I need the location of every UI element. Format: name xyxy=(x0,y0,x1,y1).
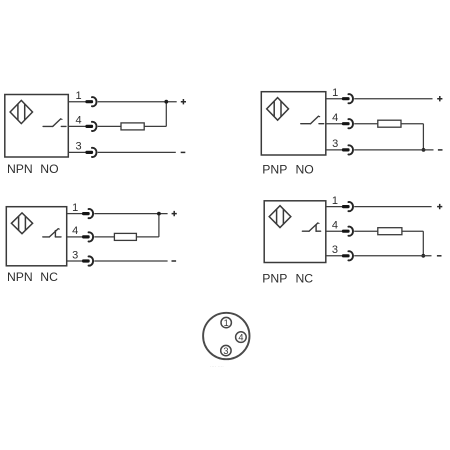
+ supply terminal xyxy=(181,99,186,104)
svg-text:4: 4 xyxy=(72,225,78,237)
sensor body box PNP-NO xyxy=(261,92,326,155)
wire pin 4 to load NPN-NO xyxy=(98,125,121,127)
svg-text:NC: NC xyxy=(40,270,58,284)
load resistor RL PNP-NC xyxy=(378,228,402,235)
+ supply terminal xyxy=(172,211,177,216)
connector plug pin 1 xyxy=(342,94,353,103)
wire pin 4 lead PNP-NO xyxy=(326,123,343,125)
wire pin 3 to - PNP-NC xyxy=(354,255,431,257)
wire pin 4 to load PNP-NO xyxy=(354,123,378,125)
wire pin 3 lead PNP-NC xyxy=(326,255,343,257)
connector pin 1 circle xyxy=(221,317,231,328)
junction NPN-NC xyxy=(157,212,161,216)
wire load to corner PNP-NC xyxy=(402,230,423,232)
wire vertical link PNP-NC xyxy=(422,231,424,256)
svg-text:4: 4 xyxy=(76,115,82,127)
wire pin 1 to + PNP-NO xyxy=(354,98,432,100)
svg-text:1: 1 xyxy=(332,87,338,99)
svg-text:.... ....: .... .... xyxy=(210,363,224,369)
connector plug pin 4 xyxy=(85,122,96,131)
switch contact (NO) NPN-NO xyxy=(43,119,66,127)
- supply terminal xyxy=(172,260,177,262)
switch contact (NC) PNP-NC xyxy=(302,223,320,231)
sensor symbol (diamond with lens) NPN-NO xyxy=(10,100,32,123)
wire load to corner NPN-NO xyxy=(144,125,166,127)
- supply terminal xyxy=(437,255,442,257)
svg-text:3: 3 xyxy=(72,249,78,261)
wire load to corner PNP-NO xyxy=(401,123,423,125)
connector plug pin 1 xyxy=(85,97,96,106)
switch contact (NO) PNP-NO xyxy=(301,116,324,124)
connector plug pin 1 xyxy=(82,209,93,218)
+ supply terminal xyxy=(437,204,442,209)
svg-text:NO: NO xyxy=(40,162,58,176)
svg-text:4: 4 xyxy=(238,332,243,342)
svg-text:NPN: NPN xyxy=(7,270,33,284)
svg-text:3: 3 xyxy=(332,138,338,150)
junction PNP-NC xyxy=(421,254,425,258)
svg-text:4: 4 xyxy=(332,112,338,124)
wire pin 3 lead NPN-NO xyxy=(68,151,86,153)
load resistor RL NPN-NO xyxy=(121,123,144,130)
wire pin 1 lead NPN-NC xyxy=(67,213,83,215)
svg-text:4: 4 xyxy=(332,220,338,232)
wire pin 4 lead PNP-NC xyxy=(326,230,343,232)
svg-text:3: 3 xyxy=(332,244,338,256)
wire pin 4 to load NPN-NC xyxy=(94,236,114,238)
connector housing circle xyxy=(203,313,249,359)
svg-text:PNP: PNP xyxy=(262,272,287,286)
connector plug pin 4 xyxy=(342,119,353,128)
svg-text:NC: NC xyxy=(296,272,314,286)
svg-text:3: 3 xyxy=(223,346,228,356)
connector plug pin 3 xyxy=(342,145,353,154)
wire pin 3 to - NPN-NO xyxy=(98,151,176,153)
svg-text:1: 1 xyxy=(72,202,78,214)
junction NPN-NO xyxy=(164,100,168,104)
connector plug pin 4 xyxy=(342,227,353,236)
wire vertical link NPN-NO xyxy=(165,102,167,127)
svg-text:1: 1 xyxy=(76,90,82,102)
wire pin 1 to + PNP-NC xyxy=(354,206,431,208)
sensor body box NPN-NO xyxy=(5,95,69,158)
wire pin 3 to - NPN-NC xyxy=(94,260,167,262)
wire pin 3 to - PNP-NO xyxy=(354,149,433,151)
load resistor RL NPN-NC xyxy=(114,233,136,240)
wire pin 4 lead NPN-NO xyxy=(68,125,86,127)
- supply terminal xyxy=(438,149,443,151)
sensor symbol (diamond with lens) PNP-NC xyxy=(269,206,291,228)
sensor symbol (diamond with lens) PNP-NO xyxy=(267,98,289,121)
load resistor RL PNP-NO xyxy=(378,120,401,127)
sensor body box PNP-NC xyxy=(264,201,326,263)
connector pin 3 circle xyxy=(221,345,231,356)
connector plug pin 3 xyxy=(85,148,96,157)
connector plug pin 3 xyxy=(82,256,93,265)
svg-text:PNP: PNP xyxy=(262,162,287,176)
wire pin 3 lead NPN-NC xyxy=(67,260,83,262)
connector plug pin 3 xyxy=(342,251,353,260)
svg-text:NPN: NPN xyxy=(7,162,33,176)
wire pin 1 lead PNP-NO xyxy=(326,98,343,100)
wire vertical link PNP-NO xyxy=(422,124,424,150)
wire vertical link NPN-NC xyxy=(158,214,160,237)
svg-text:1: 1 xyxy=(224,318,229,328)
svg-text:1: 1 xyxy=(332,195,338,207)
svg-text:NO: NO xyxy=(296,162,314,176)
wire pin 1 to + NPN-NO xyxy=(98,101,177,103)
wire pin 4 lead NPN-NC xyxy=(67,236,83,238)
sensor body box NPN-NC xyxy=(6,207,66,266)
+ supply terminal xyxy=(437,96,442,101)
connector plug pin 1 xyxy=(342,202,353,211)
wire pin 1 to + NPN-NC xyxy=(94,213,167,215)
wire pin 1 lead NPN-NO xyxy=(68,101,86,103)
junction PNP-NO xyxy=(422,148,426,152)
switch contact (NC) NPN-NC xyxy=(43,229,61,237)
wire pin 3 lead PNP-NO xyxy=(326,149,343,151)
connector plug pin 4 xyxy=(82,232,93,241)
wire load to corner NPN-NC xyxy=(136,236,159,238)
sensor symbol (diamond with lens) NPN-NC xyxy=(11,213,32,234)
svg-text:3: 3 xyxy=(76,141,82,153)
wire pin 4 to load PNP-NC xyxy=(354,230,378,232)
connector pin 4 circle xyxy=(236,332,247,343)
wire pin 1 lead PNP-NC xyxy=(326,206,343,208)
- supply terminal xyxy=(181,151,186,153)
